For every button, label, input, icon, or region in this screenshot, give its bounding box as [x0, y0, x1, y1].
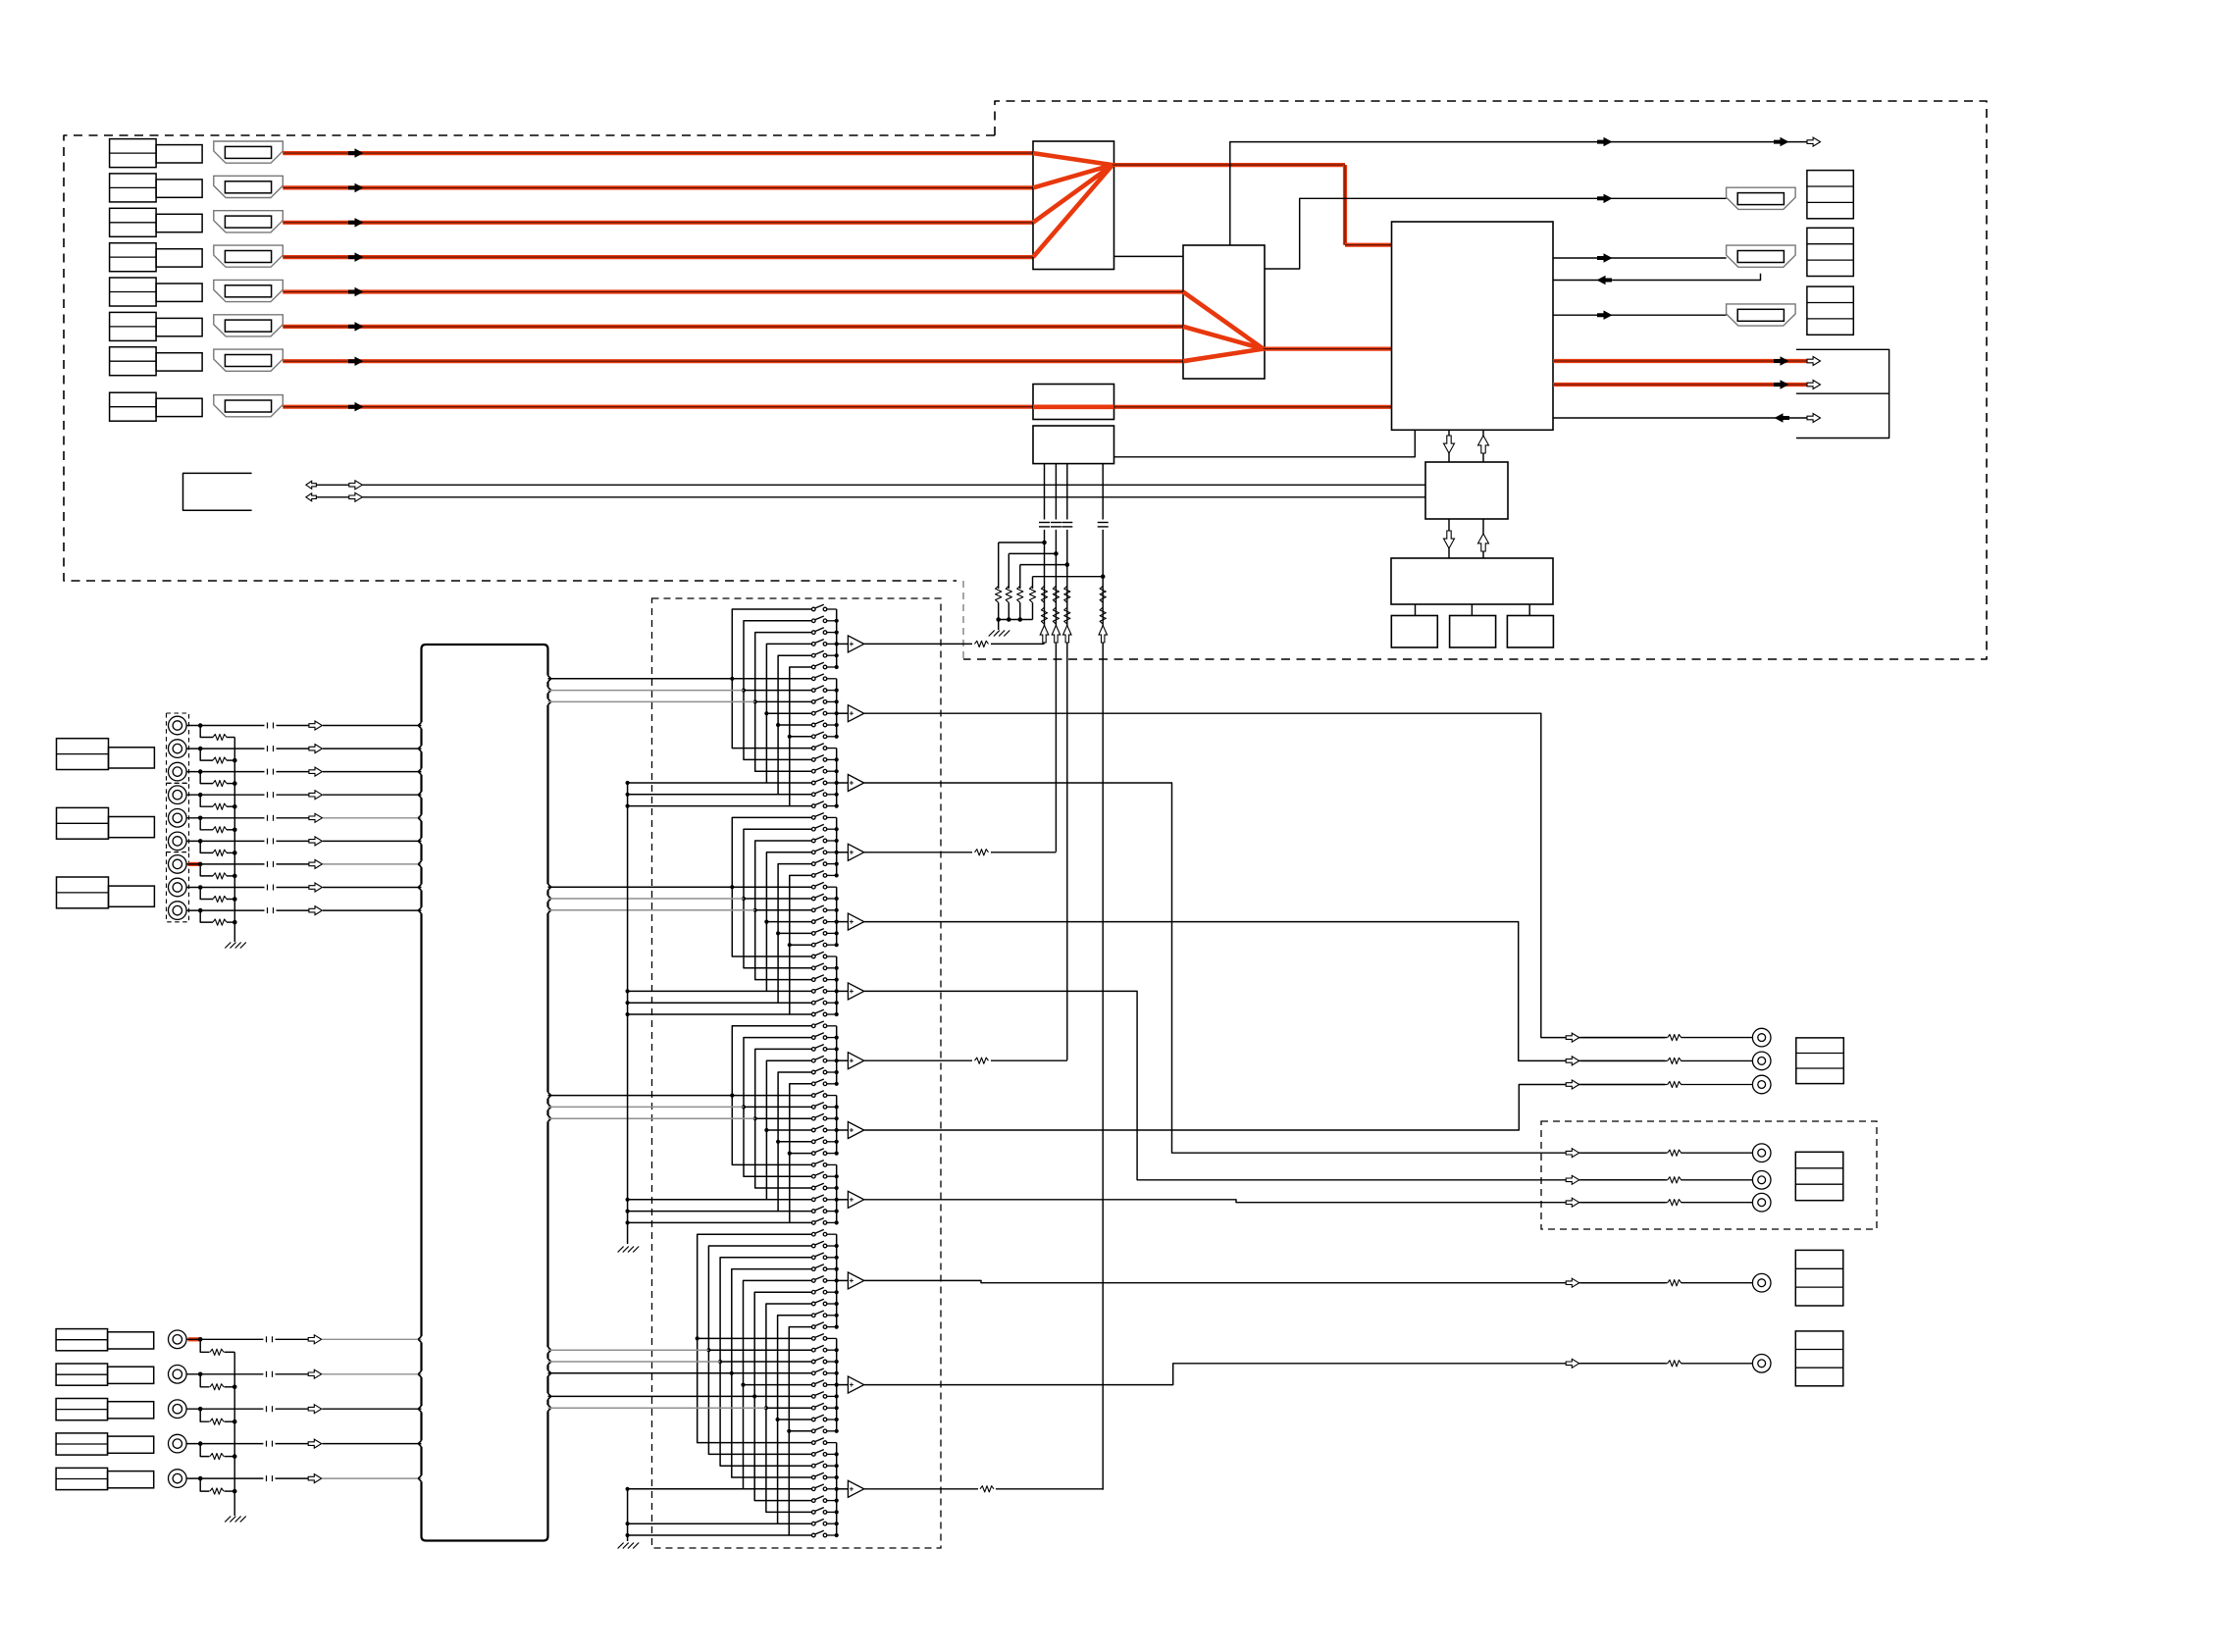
RCA jack top 4 [169, 786, 187, 804]
AV input bottom 2 label box [56, 1364, 108, 1385]
arrow RCA bottom 2 [308, 1369, 322, 1378]
buffer amp T5 [848, 913, 863, 930]
HDMI input 6 label box [110, 312, 157, 340]
junction RCA bottom 5 [198, 1476, 203, 1481]
arrow RCA bottom 5 [308, 1474, 322, 1483]
wire T1 to pullup1 [864, 643, 972, 645]
wire RCA top 4 [186, 794, 264, 796]
arrow HDMI input 8 [348, 402, 364, 412]
AV input bottom 5 label box [56, 1468, 108, 1489]
block U5 HDMI CEC [1033, 426, 1114, 464]
wire DVI out 1 [1553, 359, 1811, 363]
resistor RCA top 8 [200, 888, 213, 900]
wire T7 to pullup3 [864, 1059, 972, 1061]
wire U7 to X3 [1528, 604, 1530, 616]
dashed enclosure HDMI switch section [963, 101, 1987, 659]
arrow DVI out 1 [1774, 356, 1789, 366]
buffer amp T12 [848, 1480, 863, 1497]
arrow DDC b [1774, 137, 1789, 147]
arrow HDMI input 1 [348, 148, 364, 158]
HDMI output 2 connector [1727, 245, 1796, 267]
arrow RCA top 9 [309, 906, 323, 915]
component rec out Y [1566, 1149, 1579, 1158]
component monitor out Pr [1566, 1080, 1579, 1089]
red trace probe bottom [188, 1337, 201, 1341]
junction RCA top 8 [198, 885, 203, 890]
resistor RCA top 5 [200, 818, 213, 830]
arrow HPD in [1775, 413, 1790, 423]
video out 1 label box [1795, 1250, 1843, 1306]
HDMI input 6 sub label box [156, 318, 202, 336]
component rec out Pb [1566, 1175, 1579, 1184]
HDMI input 5 label box [110, 278, 157, 306]
arrow DDC end [1807, 137, 1821, 146]
junction RCA bottom 2 [198, 1372, 203, 1377]
AV input group 2 sub label box [109, 817, 155, 838]
RCA jack top 8 [169, 878, 187, 897]
arrow RCA bottom 1 [308, 1335, 322, 1344]
buffer amp T7 [848, 1053, 863, 1069]
component rec out Pr [1566, 1198, 1579, 1207]
block U6 MCU interface [1425, 462, 1508, 519]
HDMI input 3 connector [214, 211, 283, 232]
buffer amp T11 [848, 1376, 863, 1393]
resistor RCA top 7 [200, 864, 213, 876]
arrow HDMI out 3 [1597, 310, 1613, 320]
RCA jack bottom 3 [169, 1400, 187, 1419]
junction RCA top 9 [198, 908, 203, 913]
resistor RCA bottom 2 [200, 1374, 209, 1387]
wire T4 to pullup2 [864, 852, 972, 853]
wire T12 to pullup4 [864, 1488, 978, 1490]
block U4 EDID ROM [1033, 385, 1114, 420]
ground matrix upper [618, 1247, 624, 1253]
block CN1 control connector [183, 473, 252, 510]
wire HDMI 8 to HDMI switch [1114, 405, 1392, 409]
wire HDMI input 2 signal [283, 185, 1033, 189]
wire HDMI out 2 [1553, 257, 1727, 259]
component monitor out Pb [1566, 1057, 1579, 1065]
wire HDMI out 3 [1553, 314, 1727, 316]
wire HDMI out 2 return [1553, 274, 1761, 281]
RCA jack top 7 [169, 855, 187, 874]
wire T3 to rec out Y [864, 783, 1665, 1153]
pull-down common bar [999, 619, 1033, 621]
wire T10 to video out 1 [864, 1280, 1665, 1282]
arrow HDMI input 5 [348, 287, 364, 296]
wire U3-U6 down [1448, 430, 1450, 462]
wire RCA bottom 2 [186, 1373, 263, 1375]
buffer amp T3 [848, 775, 863, 792]
wire T9 to rec out Pr [864, 1200, 1665, 1203]
video bus harness [426, 645, 548, 649]
wire U3-U6 up [1482, 430, 1484, 462]
buffer amp T8 [848, 1122, 863, 1139]
HDMI input 5 sub label box [156, 284, 202, 301]
arrow U3-U6 down [1444, 436, 1455, 453]
junction RCA top 7 [198, 862, 203, 867]
arrow DVI out 2 end [1807, 381, 1821, 389]
arrow RCA top 6 [309, 837, 323, 846]
red trace probe top [188, 862, 201, 866]
wire HDMI input 5 signal [283, 289, 1183, 293]
ground bus matrix upper [627, 783, 629, 1244]
wire control bus line 2 [316, 496, 1425, 498]
arrow RCA top 3 [309, 767, 323, 776]
wire DDC line [1230, 142, 1811, 245]
wire HDMI out 1 [1265, 198, 1727, 269]
block U2 HDMI receiver B [1183, 245, 1265, 379]
arrow 5V pullup 3 [1063, 626, 1072, 644]
arrow DVI out 1 end [1807, 357, 1821, 366]
wire RCA top 1 [186, 725, 264, 727]
wire T5 to monitor out Pb [864, 922, 1665, 1061]
switch output collectors [836, 609, 838, 667]
arrow RCA bottom 3 [308, 1405, 322, 1414]
HDMI input 8 connector [214, 395, 283, 417]
AV input group 1 label box [57, 739, 109, 770]
ground bus AV1 [233, 738, 235, 943]
video out 2 [1566, 1359, 1579, 1368]
wire HDMI input 7 signal [283, 359, 1183, 363]
arrow RCA top 2 [309, 745, 323, 753]
wire U6-U7 up [1482, 519, 1484, 558]
wire RCA top 9 [186, 909, 264, 911]
wire RCA top 2 [186, 748, 264, 749]
wires harness to matrix section4 [548, 1349, 709, 1351]
analog switch contacts [812, 607, 816, 611]
block X2 reset [1450, 616, 1496, 648]
HDMI output 3 label box [1807, 286, 1853, 335]
HDMI input 4 sub label box [156, 249, 202, 267]
HDMI output 1 connector [1727, 187, 1796, 209]
HDMI input 2 label box [110, 174, 157, 202]
arrow U6-U7 down [1444, 531, 1455, 548]
resistor RCA bottom 3 [200, 1409, 209, 1421]
arrow U3-U6 up [1478, 436, 1489, 453]
HDMI input 8 label box [110, 392, 157, 421]
arrow bus1 left [306, 481, 317, 489]
arrow HDMI out 2 return [1597, 276, 1613, 284]
rec out label box [1795, 1152, 1843, 1200]
arrow DDC a [1597, 137, 1613, 147]
junction RCA top 2 [198, 747, 203, 751]
wire T6 to rec out Pb [864, 991, 1665, 1179]
resistor RCA top 4 [200, 795, 213, 806]
AV input bottom 4 label box [56, 1433, 108, 1455]
HDMI output 1 label box [1807, 171, 1853, 219]
buffer amp T6 [848, 983, 863, 1000]
wire U6-U7 down [1448, 519, 1450, 558]
RCA jack top 6 [169, 832, 187, 851]
HDMI input 1 sub label box [156, 145, 202, 163]
wires harness to matrix sections [548, 678, 733, 680]
HDMI input 1 connector [214, 141, 283, 163]
HDMI input 2 sub label box [156, 180, 202, 197]
video out 2 label box [1795, 1331, 1843, 1386]
arrow RCA top 5 [309, 813, 323, 822]
ground matrix lower [618, 1543, 624, 1549]
AV input group 3 sub label box [109, 886, 155, 906]
resistor RCA bottom 4 [200, 1444, 209, 1457]
wire U2 output to HDMI switch [1264, 347, 1392, 351]
arrow RCA top 1 [309, 721, 323, 730]
wire DVI out 2 [1553, 383, 1811, 387]
HDMI input 7 label box [110, 347, 157, 376]
wire RCA top 7 [186, 863, 264, 865]
HDMI output 2 label box [1807, 228, 1853, 276]
arrow RCA bottom 4 [308, 1439, 322, 1448]
component monitor out Y [1566, 1033, 1579, 1042]
resistor RCA bottom 5 [200, 1478, 209, 1491]
block U7 system control [1391, 558, 1553, 604]
arrow RCA top 8 [309, 883, 323, 892]
RCA jack top 5 [169, 809, 187, 828]
AV input group 2 label box [57, 807, 109, 839]
resistor RCA top 2 [200, 749, 213, 760]
AV input bottom 1 label box [56, 1329, 108, 1351]
resistor RCA top 9 [200, 910, 213, 922]
buffer amp T4 [848, 844, 863, 860]
red fan U2 [1183, 292, 1264, 349]
resistor RCA top 3 [200, 772, 213, 784]
resistor RCA top 1 [200, 726, 213, 738]
AV input group 1 sub label box [109, 748, 155, 768]
HDMI input 4 label box [110, 243, 157, 272]
arrow HDMI out 2 [1597, 253, 1613, 263]
junction RCA top 4 [198, 793, 203, 798]
HDMI input 4 connector [214, 245, 283, 267]
arrow HDMI input 4 [348, 252, 364, 262]
resistor RCA bottom 1 [200, 1339, 209, 1352]
arrow bus2 right [349, 492, 363, 501]
arrow bus1 right [349, 481, 363, 490]
dashed enclosure HDMI input section [64, 135, 995, 581]
ground pull-down [998, 620, 1000, 631]
block X3 eeprom [1507, 616, 1553, 648]
junction RCA bottom 1 [198, 1337, 203, 1342]
wire T2 to monitor out Y [864, 713, 1665, 1037]
AV input bottom 5 sub label box [108, 1471, 154, 1488]
RCA jack bottom 2 [169, 1366, 187, 1384]
AV input group 3 label box [57, 877, 109, 908]
wire control bus line 1 [316, 484, 1425, 486]
wire T11 to video out 2 [864, 1364, 1665, 1385]
block U1 HDMI receiver A [1033, 141, 1114, 270]
junction RCA top 6 [198, 839, 203, 844]
wire HDMI input 8 signal [283, 405, 1033, 409]
wire RCA bottom 1 [186, 1338, 263, 1340]
HDMI input 3 sub label box [156, 214, 202, 232]
matrix staircase wiring [732, 609, 811, 749]
arrow HPD end [1807, 414, 1821, 423]
AV input bottom 3 sub label box [108, 1402, 154, 1419]
pull-down resistor network [1044, 464, 1046, 520]
arrow U6-U7 up [1478, 534, 1489, 551]
dashed enclosure video switch matrix [652, 598, 942, 1548]
wire U7 to X2 [1471, 604, 1473, 616]
HDMI input 2 connector [214, 176, 283, 197]
wire U7 to X1 [1415, 604, 1417, 616]
junction RCA top 3 [198, 769, 203, 774]
wire HDMI input 4 signal [283, 255, 1033, 259]
dashed enclosure component output group [1541, 1121, 1877, 1229]
arrow 5V pullup 1 [1040, 626, 1049, 644]
arrow bus2 left [306, 493, 317, 501]
arrow 5V pullup 4 [1099, 626, 1108, 644]
wire HDMI input 3 signal [283, 221, 1033, 225]
RCA jack bottom 4 [169, 1434, 187, 1453]
ground bus matrix lower [627, 1489, 629, 1541]
junction RCA top 1 [198, 723, 203, 728]
junction RCA bottom 3 [198, 1407, 203, 1412]
arrow DVI out 2 [1774, 380, 1789, 389]
block X1 crystal [1391, 616, 1437, 648]
buffer amp T1 [848, 636, 863, 652]
wire RCA bottom 4 [186, 1443, 263, 1445]
wire HDMI input 1 signal [283, 151, 1033, 155]
arrow HDMI out 1 [1597, 194, 1613, 204]
wire HDMI input 6 signal [283, 325, 1183, 329]
wire HPD in [1553, 417, 1811, 419]
arrow RCA top 4 [309, 791, 323, 800]
HDMI output 3 connector [1727, 304, 1796, 326]
buffer amp T9 [848, 1191, 863, 1208]
RCA jack bottom 1 [169, 1330, 187, 1349]
red fan U1 [1033, 153, 1112, 165]
wire RCA bottom 5 [186, 1477, 263, 1479]
wire U5 to U3 [1114, 430, 1416, 457]
wire U1 output to HDMI switch [1112, 163, 1345, 167]
junction RCA top 5 [198, 816, 203, 821]
resistor RCA top 6 [200, 841, 213, 852]
junction RCA bottom 4 [198, 1441, 203, 1446]
arrow RCA top 7 [309, 859, 323, 868]
wire RCA top 3 [186, 771, 264, 773]
AV input bottom 1 sub label box [108, 1332, 154, 1349]
buffer amp T2 [848, 705, 863, 722]
arrow HDMI input 6 [348, 322, 364, 332]
video out 1 [1566, 1278, 1579, 1287]
red line through U4 [1033, 404, 1114, 409]
RCA jack top 2 [169, 740, 187, 758]
AV input bottom 2 sub label box [108, 1367, 154, 1383]
buffer amp T10 [848, 1272, 863, 1289]
HDMI input 1 label box [110, 139, 157, 168]
HDMI input 5 connector [214, 280, 283, 301]
RCA jack top 1 [169, 716, 187, 735]
HDMI input 8 sub label box [156, 398, 202, 416]
arrow HDMI input 3 [348, 218, 364, 228]
HDMI input 6 connector [214, 315, 283, 336]
AV input bottom 4 sub label box [108, 1436, 154, 1453]
HDMI input 7 sub label box [156, 353, 202, 371]
arrow HDMI input 7 [348, 357, 364, 367]
AV input bottom 3 label box [56, 1399, 108, 1420]
wire U1 to U2 link [1114, 255, 1184, 257]
RCA jack bottom 5 [169, 1470, 187, 1488]
dashed box AV inputs 1 [167, 713, 189, 783]
RCA jack top 9 [169, 902, 187, 920]
wire RCA top 5 [186, 817, 264, 819]
monitor out label box [1796, 1038, 1844, 1084]
RCA jack top 3 [169, 762, 187, 781]
HDMI input 3 label box [110, 208, 157, 236]
HDMI input 7 connector [214, 349, 283, 371]
block U3 HDMI switch [1392, 222, 1554, 430]
arrow HDMI input 2 [348, 183, 364, 193]
wire RCA bottom 3 [186, 1408, 263, 1410]
wire RCA top 8 [186, 887, 264, 889]
wire T8 to monitor out Pr [864, 1085, 1665, 1131]
arrow 5V pullup 2 [1052, 626, 1061, 644]
ground bus AV2 [233, 1352, 235, 1516]
wire RCA top 6 [186, 840, 264, 842]
future expansion bracket [1796, 349, 1889, 438]
